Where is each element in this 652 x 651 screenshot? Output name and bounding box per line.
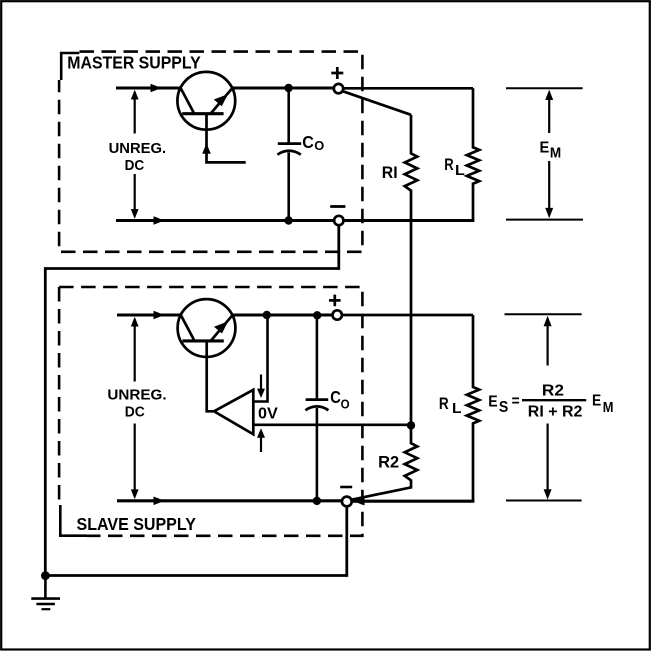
wire: slave - terminal to load R_L (352, 500, 475, 503)
svg-text:M: M (550, 146, 561, 162)
svg-text:SLAVE SUPPLY: SLAVE SUPPLY (77, 514, 197, 534)
junction node: op-amp tap on slave + rail (263, 311, 271, 319)
svg-text:RI: RI (382, 163, 398, 182)
formula E_S = R2/(R1+R2) E_M (488, 383, 613, 421)
arrowhead on slave negative input wire (154, 497, 165, 506)
svg-text:UNREG.: UNREG. (109, 140, 167, 157)
svg-text:M: M (603, 399, 614, 416)
resistor R2 (feedback divider bottom) (352, 425, 417, 499)
arrowhead on Q1 base drive stub (202, 143, 211, 154)
svg-text:0V: 0V (258, 406, 278, 423)
capacitor C_O (master output filter) (277, 88, 301, 221)
terminal + (slave output) (333, 310, 342, 319)
junction node: C_O bottom on - rail (284, 216, 292, 224)
wire: slave unregulated input, negative rail (117, 499, 342, 502)
svg-text:L: L (452, 400, 462, 417)
svg-text:R2: R2 (378, 453, 399, 471)
wire: master unregulated input, positive rail (116, 86, 181, 89)
E_M dimension arrow (548, 96, 550, 212)
transistor Q2 (slave series pass transistor) (178, 299, 236, 411)
svg-text:E: E (592, 393, 601, 410)
svg-text:DC: DC (125, 404, 145, 421)
terminal + (master output) (334, 84, 343, 93)
polarity mark - (master) (330, 205, 345, 208)
svg-text:MASTER SUPPLY: MASTER SUPPLY (67, 52, 201, 72)
svg-text:C: C (302, 132, 314, 152)
junction node: R1/R2/sense junction (407, 421, 415, 429)
wire: op-amp lower input sense line to R1/R2 junction (253, 423, 411, 426)
resistor R1 (feedback divider top, from master +) (343, 91, 418, 425)
svg-text:O: O (314, 138, 324, 153)
junction node: slave C_O top on + rail (313, 311, 321, 319)
wire: slave + terminal to load R_L (342, 314, 473, 317)
resistor R_L (slave load) (467, 315, 479, 501)
ground symbol (31, 576, 60, 610)
wire: Q2 emitter to slave + terminal (232, 313, 332, 316)
wire: slave + rail tap to op-amp upper input (254, 315, 268, 402)
svg-text:C: C (330, 387, 341, 407)
transistor Q1 (master series pass transistor) (177, 72, 245, 162)
wire: master - terminal down and across to ground bus (45, 226, 339, 576)
svg-text:R: R (439, 394, 449, 413)
emitter arrowhead of Q1 (214, 94, 228, 106)
svg-text:RI + R2: RI + R2 (528, 404, 583, 421)
UNREG. DC annotation arrow (master) (134, 92, 136, 217)
polarity mark + (slave) (329, 295, 341, 307)
emitter arrowhead of Q2 (214, 321, 228, 333)
wire: master + terminal to load R_L (343, 87, 473, 90)
polarity mark - (slave) (340, 486, 352, 489)
annotation arrow (up) at op-amp lower input (260, 436, 262, 452)
junction node: ground bus (41, 571, 50, 580)
junction node: C_O top on + rail (284, 84, 292, 92)
svg-text:E: E (488, 394, 497, 411)
wire: slave unregulated input, positive rail (117, 313, 181, 316)
svg-text:L: L (455, 162, 465, 179)
E_M dimension reference lines (506, 88, 583, 219)
E_S dimension arrow (546, 322, 548, 494)
svg-text:DC: DC (125, 157, 145, 174)
svg-text:R2: R2 (542, 383, 564, 400)
wire: master - terminal to load R_L (343, 219, 474, 222)
E_S dimension reference lines (505, 314, 582, 500)
wire: Q1 emitter to master + terminal (232, 86, 334, 89)
arrowhead on master positive input wire (151, 84, 162, 93)
resistor R_L (master load) (467, 88, 479, 220)
op-amp U1 (slave error amplifier) (214, 390, 253, 435)
terminal - (master output) (334, 216, 343, 225)
svg-text:E: E (540, 140, 550, 157)
polarity mark + (master) (331, 67, 343, 79)
arrowhead pointing left at slave - terminal (354, 497, 365, 506)
arrowhead on master negative input wire (154, 216, 165, 225)
svg-text:=: = (512, 393, 520, 410)
svg-text:O: O (341, 397, 350, 412)
arrowhead on slave positive input wire (154, 311, 165, 320)
wire: master unregulated input, negative rail (116, 219, 334, 222)
junction node: slave C_O bottom on - rail (313, 497, 321, 505)
annotation arrow (down) at op-amp upper input (260, 375, 262, 391)
master supply enclosure (dashed box) (59, 52, 362, 252)
slave supply enclosure (dashed box) (59, 287, 362, 536)
UNREG. DC annotation arrow (slave) (134, 319, 136, 497)
ground bus wire from slave - terminal (45, 507, 347, 576)
terminal - (slave output) (342, 497, 352, 507)
capacitor C_O (slave output filter) (305, 315, 328, 501)
svg-text:UNREG.: UNREG. (107, 386, 166, 403)
svg-text:S: S (499, 399, 508, 416)
svg-text:R: R (444, 155, 453, 174)
